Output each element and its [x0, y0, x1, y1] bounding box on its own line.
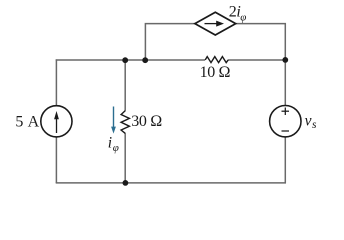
dependent source U1 diamond	[195, 12, 236, 35]
node A junction dot (30-ohm top)	[122, 57, 128, 63]
svg-text:φ: φ	[240, 11, 246, 23]
voltage source V1 circle	[270, 106, 301, 137]
svg-text:2i: 2i	[229, 3, 241, 20]
wire: bottom rail	[56, 182, 286, 184]
resistor R1 30 ohm zigzag	[121, 111, 129, 134]
resistor R2 10 ohm zigzag	[205, 57, 228, 63]
current source I1 arrow	[56, 117, 58, 133]
wire: middle rail left (top-left corner to 10-ohm resistor)	[56, 59, 205, 61]
voltage source V1 plus sign	[282, 110, 290, 112]
wire: top rail right of diamond	[236, 24, 285, 106]
svg-text:φ: φ	[113, 142, 119, 154]
current source I1 5 A circle	[41, 106, 72, 137]
svg-text:5 A: 5 A	[15, 114, 39, 131]
wire: riser from node B up to top rail	[145, 24, 195, 60]
voltage source V1 minus sign	[282, 130, 290, 132]
dependent source U1 arrow	[205, 23, 218, 25]
node D junction dot (bottom rail)	[123, 180, 129, 186]
wire: right vertical below voltage source	[284, 137, 286, 183]
svg-text:i: i	[108, 134, 112, 151]
node C junction dot (right rail)	[282, 57, 288, 63]
svg-text:30 Ω: 30 Ω	[131, 113, 162, 130]
wire: 30-ohm branch lower segment	[124, 133, 126, 183]
svg-text:v: v	[305, 112, 312, 129]
wire: 30-ohm branch upper segment	[124, 59, 126, 110]
wire: left vertical top segment	[55, 59, 57, 105]
wire: left vertical bottom segment	[55, 137, 57, 183]
wire: middle rail right (10-ohm resistor to right vertical)	[228, 59, 286, 61]
svg-text:10 Ω: 10 Ω	[200, 64, 231, 81]
svg-text:s: s	[312, 119, 317, 131]
current arrow i_phi (blue)	[113, 107, 115, 128]
node B junction dot (riser)	[142, 57, 148, 63]
